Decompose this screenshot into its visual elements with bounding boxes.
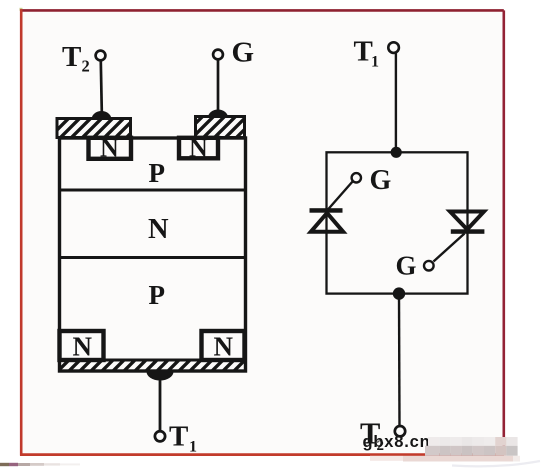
- svg-text:N: N: [100, 134, 119, 163]
- svg-text:P: P: [149, 280, 166, 310]
- svg-text:1: 1: [371, 54, 379, 71]
- svg-text:G: G: [232, 37, 255, 69]
- svg-text:G: G: [396, 251, 417, 281]
- svg-text:gbx8.cn: gbx8.cn: [363, 433, 431, 451]
- svg-text:N: N: [214, 332, 234, 362]
- svg-text:2: 2: [82, 57, 90, 76]
- svg-text:P: P: [149, 158, 166, 188]
- svg-text:N: N: [189, 134, 208, 163]
- svg-text:T: T: [354, 36, 373, 68]
- svg-text:N: N: [73, 332, 93, 362]
- svg-text:T: T: [169, 421, 188, 453]
- svg-text:1: 1: [189, 439, 197, 456]
- svg-text:G: G: [370, 165, 392, 196]
- svg-text:N: N: [148, 214, 169, 245]
- svg-text:T: T: [62, 41, 81, 73]
